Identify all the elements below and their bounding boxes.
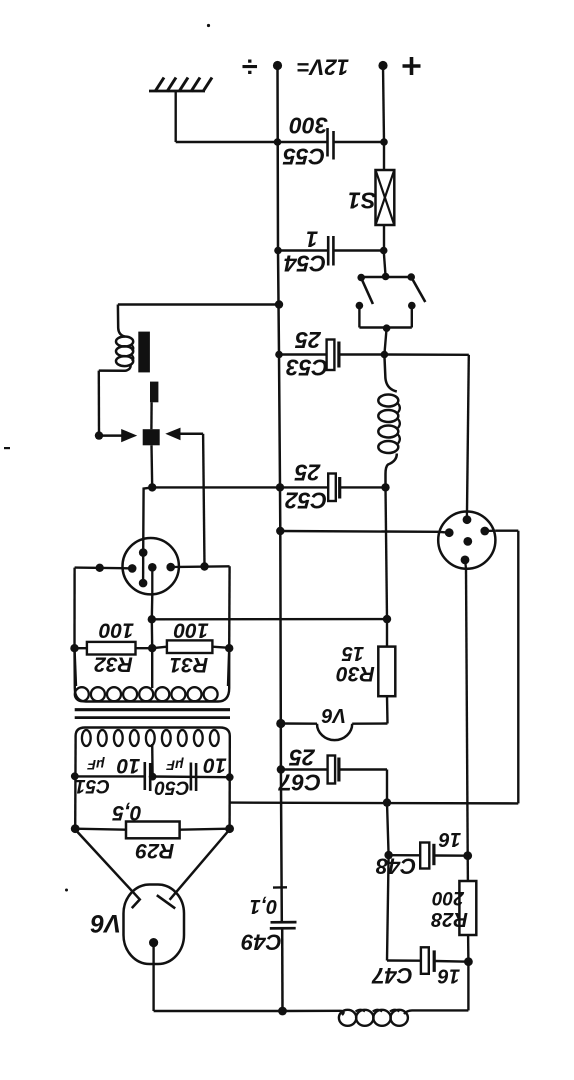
svg-text:÷: ÷	[242, 50, 258, 82]
svg-text:C50: C50	[154, 777, 189, 798]
svg-text:C54: C54	[284, 251, 326, 277]
svg-text:C67: C67	[278, 770, 321, 796]
svg-text:25: 25	[288, 745, 316, 771]
svg-text:C53: C53	[286, 355, 328, 381]
svg-text:25: 25	[294, 327, 322, 353]
svg-text:V6: V6	[90, 909, 122, 937]
svg-text:V6: V6	[321, 704, 346, 726]
svg-text:100: 100	[173, 619, 208, 642]
svg-text:12V=: 12V=	[297, 55, 349, 80]
svg-text:R29: R29	[135, 839, 174, 862]
svg-text:C52: C52	[285, 488, 327, 514]
svg-text:C49: C49	[241, 930, 282, 955]
svg-text:300: 300	[289, 113, 328, 139]
svg-text:R31: R31	[170, 653, 209, 676]
svg-text:15: 15	[341, 642, 364, 664]
svg-text:C48: C48	[375, 854, 416, 879]
svg-text:S1: S1	[348, 188, 376, 214]
svg-text:10: 10	[203, 754, 227, 777]
svg-text:16: 16	[437, 965, 460, 987]
svg-text:C55: C55	[282, 144, 325, 170]
svg-text:C51: C51	[75, 775, 110, 796]
svg-text:10: 10	[117, 754, 141, 777]
svg-text:μF: μF	[166, 758, 184, 774]
svg-text:μF: μF	[87, 757, 105, 773]
svg-text:R28: R28	[430, 908, 468, 930]
svg-text:200: 200	[432, 887, 465, 908]
svg-text:R30: R30	[336, 662, 375, 685]
svg-text:16: 16	[438, 828, 461, 850]
svg-text:C47: C47	[371, 963, 413, 988]
svg-text:R32: R32	[94, 653, 133, 676]
svg-text:0,1: 0,1	[250, 895, 278, 917]
svg-text:25: 25	[294, 460, 322, 486]
svg-text:1: 1	[306, 227, 318, 252]
svg-text:100: 100	[99, 619, 134, 642]
svg-text:0,5: 0,5	[112, 801, 142, 824]
